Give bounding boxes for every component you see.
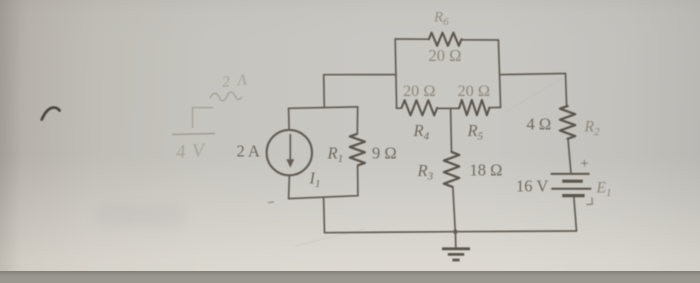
- svg-text:20 Ω: 20 Ω: [429, 46, 462, 65]
- svg-text:+: +: [580, 156, 588, 172]
- resistor R6 branch (top, 20 ohm): [395, 38, 429, 40]
- current source arrow: [289, 134, 291, 160]
- resistor R1 (9 ohm): [350, 134, 365, 166]
- svg-text:18 Ω: 18 Ω: [470, 161, 503, 180]
- resistor R5 (20 ohm): [459, 100, 489, 115]
- wire: lower-left vertical from source loop to bottom wire: [323, 197, 326, 233]
- ground node junction dot: [453, 229, 458, 234]
- wire: parallel box right vertical: [498, 40, 500, 107]
- resistor R2 (4 ohm): [560, 106, 575, 139]
- wire: node between R4 and R5: [437, 107, 459, 109]
- faint dash mark left of loop: [268, 201, 274, 204]
- battery E1 (16 V) plates: [551, 174, 592, 196]
- svg-text:E1: E1: [596, 180, 612, 200]
- svg-text:R4: R4: [413, 121, 430, 143]
- svg-text:R1: R1: [327, 144, 344, 166]
- dark pen mark (upper left): [42, 108, 60, 120]
- wire: bottom wire: [325, 231, 577, 233]
- wire: R2 to battery E1: [568, 139, 571, 174]
- wire: R3 to ground node: [453, 187, 456, 232]
- svg-text:R3: R3: [417, 161, 434, 183]
- svg-text:2 Λ: 2 Λ: [221, 71, 249, 91]
- svg-text:R2: R2: [584, 119, 600, 139]
- pencil scribble: [210, 92, 242, 101]
- wire: source loop rectangle top edge: [289, 107, 358, 108]
- current source I1 (2 A) circle: [267, 130, 312, 175]
- faint show-through blob: [95, 205, 185, 227]
- wire: source loop right edge leads to R1: [356, 107, 358, 134]
- wire: parallel box left vertical: [395, 39, 396, 108]
- pencil horizontal line: [172, 134, 215, 135]
- pencil L-shaped line: [193, 108, 214, 129]
- svg-text:20 Ω: 20 Ω: [458, 81, 490, 100]
- wire: source loop left edge (through current source): [288, 108, 291, 130]
- wire: source loop rectangle bottom edge: [289, 196, 358, 199]
- svg-text:R5: R5: [467, 121, 484, 143]
- faint paper crease lines: [295, 229, 365, 246]
- svg-text:20 Ω: 20 Ω: [403, 81, 435, 100]
- ground symbol: [442, 232, 470, 260]
- svg-text:9 Ω: 9 Ω: [372, 144, 397, 163]
- wire: top-left vertical from source loop to main top wire: [324, 75, 396, 108]
- svg-text:I1: I1: [309, 169, 321, 191]
- svg-text:4 V: 4 V: [175, 140, 207, 163]
- svg-text:16 V: 16 V: [516, 177, 548, 196]
- wire: battery E1 to bottom wire: [574, 197, 577, 232]
- wire: center drop from R4/R5 node to R3: [450, 108, 453, 152]
- wire: R2 branch upper vertical: [566, 74, 567, 107]
- resistor R3 (18 ohm): [444, 152, 459, 187]
- label - (battery negative bracket): [586, 198, 592, 205]
- resistor R4 (20 ohm): [397, 107, 402, 109]
- svg-text:4 Ω: 4 Ω: [527, 115, 552, 134]
- wire: main top wire right segment to R2 branch: [500, 74, 565, 75]
- svg-text:R6: R6: [433, 10, 449, 29]
- svg-text:2 A: 2 A: [237, 142, 260, 161]
